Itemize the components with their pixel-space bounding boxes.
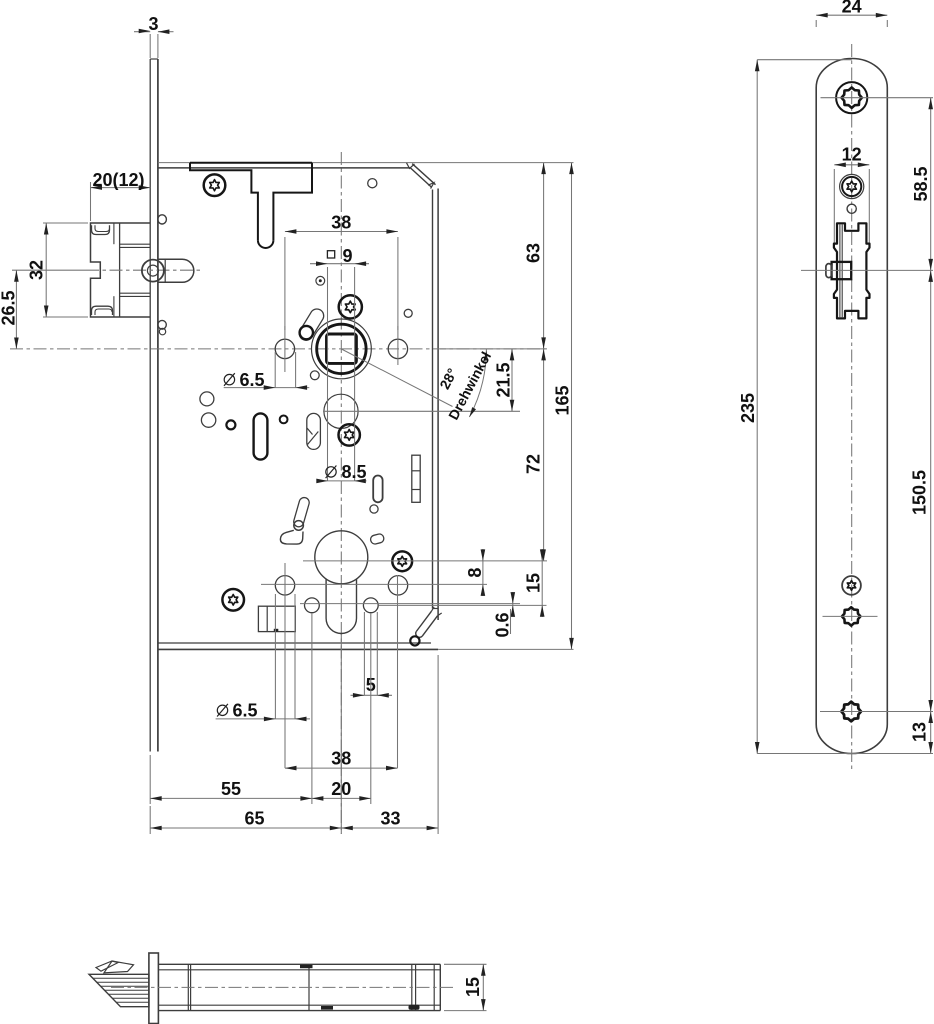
latch follower pin through faceplate <box>142 260 164 282</box>
hole below-left of follower <box>310 371 319 380</box>
svg-text:26.5: 26.5 <box>0 290 19 325</box>
dimension 9 square <box>327 251 334 258</box>
dimension 3 faceplate thickness <box>149 34 151 58</box>
svg-text:24: 24 <box>842 0 862 17</box>
reference line y347 for 63-72 <box>440 348 547 350</box>
screw lug top of strip <box>158 215 167 224</box>
mounting tab with spring slot <box>190 163 312 240</box>
svg-text:0.6: 0.6 <box>493 612 513 637</box>
svg-text:8: 8 <box>465 568 485 578</box>
dimension 21.5 <box>511 349 513 411</box>
dimension 55 <box>149 755 151 804</box>
bottom view dividers <box>187 964 189 1010</box>
hole small lower-right <box>363 598 378 613</box>
svg-text:63: 63 <box>524 243 544 263</box>
dimension 12 <box>833 169 835 246</box>
hole lower-right 6.5 <box>388 576 407 595</box>
bold circle small mid <box>280 416 288 424</box>
second screw torx <box>840 174 864 198</box>
svg-text:55: 55 <box>221 779 241 799</box>
reference line y584 <box>261 583 487 585</box>
dimension 150.5 <box>930 270 932 711</box>
dimension 20(12) latch projection <box>90 182 92 221</box>
leader line 28deg <box>341 349 452 407</box>
dimension 38 top <box>284 237 286 330</box>
hole lower-left 6.5 <box>275 576 294 595</box>
screw T4 lower-right <box>392 551 412 571</box>
svg-text:165: 165 <box>553 385 573 415</box>
latch guide block front view <box>834 223 870 318</box>
bold ring small left <box>226 420 235 429</box>
dimension 5 <box>363 612 365 695</box>
faceplate vertical centerline <box>851 44 853 770</box>
horizontal centerline main axis <box>10 348 546 350</box>
dimension 65 <box>149 806 151 834</box>
faceplate front outline <box>816 59 887 754</box>
lock case bottom view inner lines <box>158 969 440 971</box>
hole small lower-left <box>305 598 320 613</box>
dimension dia6.5 lower <box>274 594 276 719</box>
latch axis centerline <box>12 269 86 271</box>
spring circle below follower <box>324 394 358 428</box>
latch bolt box side view <box>91 223 151 317</box>
dimension 38 bottom <box>284 563 286 768</box>
vertical centerline main view <box>340 152 342 834</box>
follower hub bold ring <box>317 324 366 373</box>
bold slot capsule left <box>254 413 268 459</box>
reference line y560 <box>303 560 547 562</box>
hole below slot <box>370 505 378 513</box>
pin with center dot <box>316 276 325 285</box>
hole right 6.5 on axis <box>388 339 407 358</box>
deadlatch wedge bottom view <box>96 961 118 971</box>
top screw torx 8-lobe <box>836 82 867 113</box>
svg-text:9: 9 <box>342 246 352 266</box>
dimension 13 <box>930 712 932 754</box>
reference line y603 <box>300 603 520 605</box>
boot lever bottom-left <box>294 498 309 527</box>
euro cylinder profile <box>315 531 368 584</box>
dimension 235 <box>757 59 852 61</box>
lock case chamfer top-right <box>412 164 435 185</box>
deadlatch trigger bottom-right <box>433 608 439 610</box>
svg-text:21.5: 21.5 <box>494 362 514 397</box>
svg-text:13: 13 <box>910 722 930 742</box>
lock case right edge <box>432 190 434 609</box>
dimension 165 <box>571 163 573 650</box>
dimension 20 <box>370 613 372 804</box>
svg-text:15: 15 <box>463 977 483 997</box>
dimension 24 <box>815 20 817 27</box>
latch bolt front view <box>832 262 852 279</box>
small blob pin <box>370 533 385 545</box>
dimension 26.5 <box>15 270 17 349</box>
indicator rectangle right <box>412 455 420 502</box>
svg-text:6.5: 6.5 <box>233 700 258 720</box>
svg-text:3: 3 <box>148 14 158 34</box>
svg-text:65: 65 <box>244 809 264 829</box>
slot capsule right <box>373 476 382 503</box>
svg-text:38: 38 <box>331 213 351 233</box>
dimension 72 <box>543 349 545 561</box>
lever pivot bold circle <box>300 326 313 339</box>
svg-text:58.5: 58.5 <box>911 166 931 201</box>
screw T3 below follower <box>339 424 360 445</box>
block lower-left <box>258 606 295 631</box>
svg-text:72: 72 <box>524 454 544 474</box>
faceplate side view strip <box>149 59 151 752</box>
dimension 32 <box>43 222 88 224</box>
dimension 33 <box>341 827 438 829</box>
hole small right of follower <box>404 309 412 317</box>
dimension 63 <box>543 163 545 349</box>
hole left 6.5 on axis <box>275 339 294 358</box>
reference line y411 for 21.5 <box>323 410 520 412</box>
svg-text:20(12): 20(12) <box>92 170 144 190</box>
dimension 0.6 <box>512 592 514 616</box>
dimension 15 bottom view <box>444 963 487 965</box>
svg-text:6.5: 6.5 <box>240 370 265 390</box>
bottom view centerline <box>111 986 456 988</box>
dimension 58.5 <box>930 98 932 271</box>
svg-text:33: 33 <box>380 809 400 829</box>
follower hub outer circle <box>312 319 372 379</box>
reference line y605 <box>379 604 547 606</box>
angle arc 28 deg <box>469 349 486 417</box>
lock case top edge <box>158 162 574 164</box>
lock case bottom view outline <box>158 963 440 965</box>
screw gear mid <box>842 607 860 625</box>
svg-text:32: 32 <box>27 260 47 280</box>
screw T5 lower-left <box>222 589 244 611</box>
svg-text:8.5: 8.5 <box>342 462 367 482</box>
bottom view dark segments <box>300 965 313 968</box>
svg-text:150.5: 150.5 <box>910 470 930 515</box>
faceplate cross-section bottom view <box>149 953 159 1024</box>
svg-text:12: 12 <box>842 145 862 165</box>
dimension 15 right <box>541 549 543 617</box>
screw lug bottom of strip <box>158 320 166 329</box>
screw gear bottom <box>841 702 861 722</box>
svg-text:235: 235 <box>738 393 758 423</box>
latch bolt bottom view <box>89 974 149 1006</box>
lever capsule upper-left of follower <box>299 309 323 340</box>
dimension 8 <box>482 549 484 596</box>
holes left pair <box>200 392 214 406</box>
dimension dia8.5 <box>317 480 367 482</box>
follower square 9mm <box>327 334 357 363</box>
screw T2 above follower <box>339 295 362 318</box>
screw T1 top-left <box>204 174 226 196</box>
screw small torx lower <box>842 576 861 595</box>
pierced tab capsule <box>307 413 321 449</box>
lock case bottom edge <box>158 642 431 644</box>
hole top-right small <box>368 179 377 188</box>
dimension dia6.5 upper <box>274 352 276 388</box>
latch axis line right view <box>801 269 933 271</box>
small hole below screw <box>847 204 856 213</box>
svg-text:15: 15 <box>523 573 543 593</box>
